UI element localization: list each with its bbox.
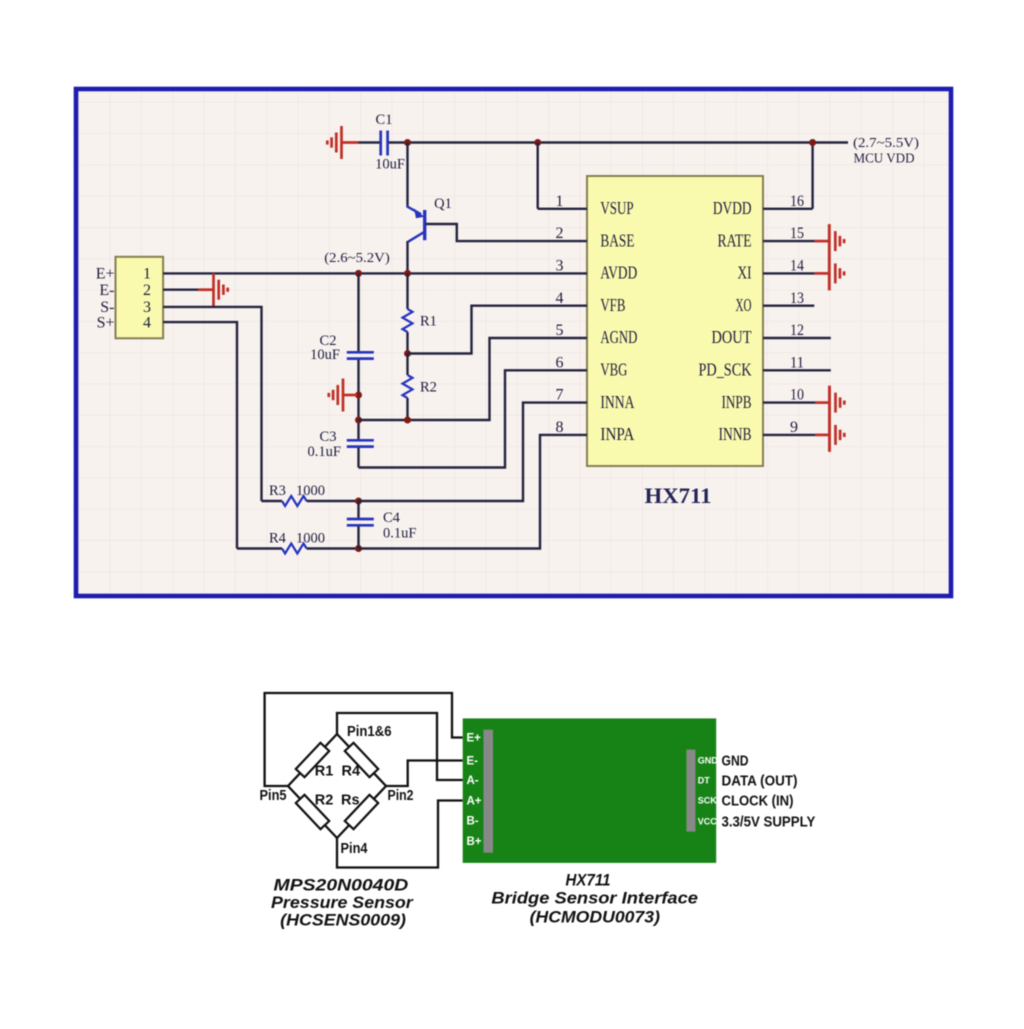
svg-text:R4: R4 xyxy=(342,764,361,780)
svg-text:Pin1&6: Pin1&6 xyxy=(347,724,392,740)
svg-text:GND: GND xyxy=(722,754,749,770)
svg-text:VCC: VCC xyxy=(698,817,718,827)
svg-text:1000: 1000 xyxy=(296,483,325,499)
svg-text:Rs: Rs xyxy=(341,793,360,809)
svg-text:0.1uF: 0.1uF xyxy=(308,444,341,460)
svg-text:13: 13 xyxy=(790,290,804,307)
svg-text:DOUT: DOUT xyxy=(712,327,752,347)
svg-text:SCK: SCK xyxy=(698,796,718,806)
svg-text:8: 8 xyxy=(556,419,564,436)
svg-text:R1: R1 xyxy=(315,764,334,780)
svg-text:E+: E+ xyxy=(467,733,482,745)
svg-text:4: 4 xyxy=(556,290,564,307)
svg-text:DATA (OUT): DATA (OUT) xyxy=(722,773,798,789)
svg-text:9: 9 xyxy=(790,419,798,436)
svg-text:B-: B- xyxy=(467,816,479,828)
svg-text:2: 2 xyxy=(556,225,564,242)
svg-text:DVDD: DVDD xyxy=(713,198,752,218)
svg-text:B+: B+ xyxy=(467,836,482,848)
svg-text:HX711: HX711 xyxy=(566,872,611,890)
svg-text:VFB: VFB xyxy=(600,295,625,315)
svg-text:R4: R4 xyxy=(269,531,287,547)
svg-text:E-: E- xyxy=(467,756,479,768)
svg-text:DT: DT xyxy=(698,776,710,786)
svg-text:VBG: VBG xyxy=(600,360,627,380)
svg-text:R2: R2 xyxy=(420,380,437,396)
svg-text:0.1uF: 0.1uF xyxy=(383,526,416,542)
svg-text:3.3/5V SUPPLY: 3.3/5V SUPPLY xyxy=(722,815,816,831)
svg-text:Pin2: Pin2 xyxy=(388,788,414,804)
svg-text:1: 1 xyxy=(556,193,564,210)
svg-text:Pin4: Pin4 xyxy=(341,841,368,857)
svg-text:CLOCK (IN): CLOCK (IN) xyxy=(722,794,794,810)
svg-text:R1: R1 xyxy=(420,314,437,330)
svg-text:(HCSENS0009): (HCSENS0009) xyxy=(280,912,406,930)
svg-text:PD_SCK: PD_SCK xyxy=(699,360,752,380)
svg-text:XO: XO xyxy=(736,295,752,315)
svg-text:10: 10 xyxy=(790,387,804,404)
svg-text:C3: C3 xyxy=(320,429,337,445)
svg-text:C4: C4 xyxy=(383,510,401,526)
svg-text:Bridge Sensor Interface: Bridge Sensor Interface xyxy=(491,890,698,908)
svg-text:(2.6~5.2V): (2.6~5.2V) xyxy=(324,251,390,266)
svg-text:A-: A- xyxy=(467,775,479,787)
svg-text:INNA: INNA xyxy=(600,392,634,412)
svg-text:AVDD: AVDD xyxy=(600,263,637,283)
svg-text:6: 6 xyxy=(556,354,564,371)
svg-text:10uF: 10uF xyxy=(310,347,340,363)
svg-text:5: 5 xyxy=(556,322,564,339)
svg-text:XI: XI xyxy=(738,263,752,283)
svg-text:INNB: INNB xyxy=(719,424,752,444)
svg-text:S+: S+ xyxy=(97,314,115,331)
svg-text:1000: 1000 xyxy=(296,531,325,547)
svg-text:12: 12 xyxy=(790,322,804,339)
svg-text:1: 1 xyxy=(143,266,151,283)
svg-text:(2.7~5.5V): (2.7~5.5V) xyxy=(853,136,919,151)
svg-text:Pressure Sensor: Pressure Sensor xyxy=(271,894,414,912)
svg-text:A+: A+ xyxy=(467,796,482,808)
svg-text:R2: R2 xyxy=(315,793,334,809)
svg-text:16: 16 xyxy=(790,193,804,210)
svg-text:HX711: HX711 xyxy=(645,483,712,508)
svg-text:2: 2 xyxy=(143,282,151,299)
svg-text:4: 4 xyxy=(143,314,151,331)
svg-text:INPA: INPA xyxy=(600,424,634,444)
svg-text:11: 11 xyxy=(790,354,804,371)
svg-text:MCU VDD: MCU VDD xyxy=(854,152,915,167)
svg-text:15: 15 xyxy=(790,225,804,242)
svg-text:Pin5: Pin5 xyxy=(260,788,287,804)
svg-text:14: 14 xyxy=(790,258,804,275)
svg-text:INPB: INPB xyxy=(722,392,752,412)
svg-text:AGND: AGND xyxy=(600,327,637,347)
svg-text:MPS20N0040D: MPS20N0040D xyxy=(274,877,409,895)
svg-text:(HCMODU0073): (HCMODU0073) xyxy=(530,909,661,927)
svg-text:7: 7 xyxy=(556,387,564,404)
svg-text:10uF: 10uF xyxy=(375,157,405,173)
svg-text:Q1: Q1 xyxy=(434,196,452,212)
svg-text:VSUP: VSUP xyxy=(600,198,633,218)
svg-text:RATE: RATE xyxy=(718,230,752,250)
svg-text:BASE: BASE xyxy=(600,230,634,250)
svg-text:E-: E- xyxy=(99,282,114,299)
svg-text:GND: GND xyxy=(698,756,719,766)
svg-text:C1: C1 xyxy=(376,112,393,128)
svg-text:3: 3 xyxy=(556,258,564,275)
svg-text:R3: R3 xyxy=(269,483,286,499)
svg-text:E+: E+ xyxy=(96,266,115,283)
